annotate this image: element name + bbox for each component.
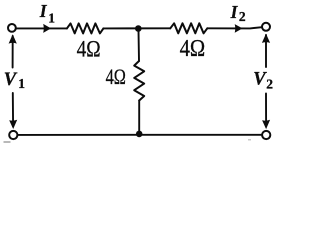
svg-text:1: 1 [18, 76, 25, 91]
voltage arrow shaft V2 upper [265, 35, 267, 67]
svg-text:I: I [230, 2, 239, 22]
svg-text:2: 2 [239, 9, 246, 24]
voltage arrow shaft V1 lower [12, 93, 14, 127]
scan artifact speck bottom-right [248, 139, 251, 141]
svg-text:V: V [253, 70, 267, 90]
arrowhead V2 down [262, 120, 270, 129]
resistor R2 zigzag 4ohm top-right [170, 23, 207, 33]
svg-text:4Ω: 4Ω [77, 36, 101, 62]
resistor R1 zigzag 4ohm top-left [67, 23, 104, 33]
resistor R3 zigzag 4ohm middle vertical [134, 61, 144, 101]
wire bottom [18, 134, 262, 136]
node dot bottom [136, 131, 143, 138]
scan artifact smudge bottom-left [4, 141, 11, 143]
terminal circle top-right (port 2 +) [262, 23, 270, 31]
arrowhead V1 down [9, 120, 17, 129]
wire top-middle segment [103, 27, 170, 29]
wire top-left segment [16, 27, 67, 29]
node dot top (junction of R1,R2,R3) [135, 25, 142, 32]
svg-text:2: 2 [266, 77, 273, 92]
arrowhead I2 current arrow [235, 24, 243, 33]
svg-text:I: I [39, 1, 48, 21]
arrowhead V1 up [9, 34, 17, 43]
wire top-right segment [207, 27, 261, 28]
voltage arrow shaft V1 upper [12, 36, 14, 68]
wire vertical upper (node to resistor) [138, 31, 141, 62]
terminal circle top-left (port 1 +) [8, 24, 16, 32]
arrowhead V2 up [262, 34, 270, 43]
terminal circle bottom-right (port 2 -) [262, 131, 270, 139]
wire vertical lower (resistor to bottom node) [138, 101, 140, 134]
svg-text:4Ω: 4Ω [106, 64, 126, 89]
terminal circle bottom-left (port 1 -) [9, 131, 17, 139]
voltage arrow shaft V2 lower [265, 94, 267, 127]
arrowhead I1 current arrow [43, 24, 51, 33]
svg-text:1: 1 [48, 10, 55, 25]
svg-text:4Ω: 4Ω [180, 36, 206, 62]
svg-text:V: V [4, 70, 18, 90]
